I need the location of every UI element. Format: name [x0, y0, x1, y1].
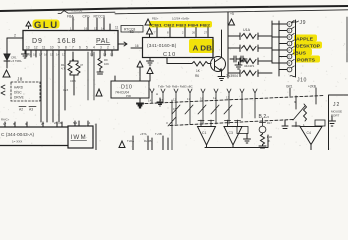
svg-text:14: 14 — [101, 27, 105, 31]
svg-text:CFB: CFB — [70, 79, 76, 83]
svg-text:+2KB: +2KB — [308, 85, 316, 89]
svg-text:2: 2 — [107, 46, 109, 50]
svg-text:14: 14 — [103, 53, 107, 57]
svg-text:C4: C4 — [307, 131, 311, 135]
svg-text:PAL: PAL — [96, 38, 110, 45]
svg-text:5: 5 — [86, 46, 88, 50]
svg-text:CB1 CB2 FB3 FB4 FB2: CB1 CB2 FB3 FB4 FB2 — [151, 23, 210, 27]
svg-text:A2: A2 — [19, 108, 23, 112]
svg-text:14: 14 — [87, 121, 91, 125]
svg-text:DISC: DISC — [14, 91, 22, 95]
svg-text:J2: J2 — [333, 102, 340, 108]
svg-text:15: 15 — [94, 27, 98, 31]
svg-text:APPLE: APPLE — [296, 37, 313, 42]
svg-text:14: 14 — [56, 53, 60, 57]
svg-text:4: 4 — [93, 46, 95, 50]
svg-text:DESKTOP: DESKTOP — [296, 44, 320, 49]
svg-text:HARD: HARD — [14, 86, 24, 90]
svg-text:RA/C+: RA/C+ — [1, 118, 10, 122]
svg-text:12: 12 — [213, 96, 217, 100]
svg-text:15: 15 — [160, 98, 164, 102]
svg-text:15: 15 — [173, 107, 177, 111]
svg-text:16L8: 16L8 — [57, 38, 77, 45]
svg-text:C3: C3 — [229, 131, 233, 135]
svg-text:FBA: FBA — [67, 15, 74, 19]
svg-text:10K: 10K — [104, 62, 109, 66]
svg-text:9: 9 — [58, 46, 60, 50]
svg-text:IWM: IWM — [71, 134, 87, 141]
svg-text:16: 16 — [135, 44, 139, 48]
svg-text:27: 27 — [204, 31, 207, 35]
svg-text:C10: C10 — [163, 52, 176, 58]
svg-text:19: 19 — [27, 53, 31, 57]
svg-text:+5 TRKL: +5 TRKL — [11, 59, 23, 63]
svg-text:17: 17 — [3, 122, 7, 126]
svg-text:TxB+ TxB- RxB+ RxB3 xBC: TxB+ TxB- RxB+ RxB3 xBC — [158, 85, 193, 89]
svg-text:TxDA: TxDA — [127, 139, 134, 143]
svg-text:2: 2 — [14, 34, 16, 38]
svg-text:16: 16 — [44, 53, 48, 57]
svg-text:BUS: BUS — [295, 51, 306, 56]
svg-text:17: 17 — [39, 53, 43, 57]
svg-text:15: 15 — [50, 53, 54, 57]
svg-text:2N3904: 2N3904 — [226, 74, 238, 78]
svg-text:12: 12 — [110, 53, 114, 57]
svg-text:FB2+: FB2+ — [152, 17, 159, 21]
svg-text:12: 12 — [173, 98, 177, 102]
svg-text:A3: A3 — [29, 108, 33, 112]
svg-text:PORT: PORT — [331, 114, 339, 118]
svg-text:26,18: 26,18 — [54, 121, 62, 125]
svg-text:RTCCS: RTCCS — [94, 15, 106, 19]
svg-text:12: 12 — [34, 46, 38, 50]
svg-text:J8: J8 — [17, 77, 23, 82]
svg-text:RxDB: RxDB — [144, 139, 151, 143]
svg-text:4.7: 4.7 — [61, 67, 65, 71]
svg-text:+5: +5 — [230, 12, 234, 16]
svg-text:11: 11 — [115, 26, 119, 30]
svg-text:26: 26 — [192, 31, 195, 35]
svg-text:P06: P06 — [126, 94, 131, 98]
svg-text:1/2/3/4 +5v/B+: 1/2/3/4 +5v/B+ — [172, 17, 190, 21]
svg-text:PORTS: PORTS — [297, 58, 315, 63]
svg-text:18: 18 — [33, 53, 37, 57]
svg-text:Δ: Δ — [156, 92, 158, 96]
svg-text:27: 27 — [41, 122, 45, 126]
svg-text:13: 13 — [62, 53, 66, 57]
svg-text:13: 13 — [26, 46, 30, 50]
svg-text:3: 3 — [100, 46, 102, 50]
svg-text:15: 15 — [90, 53, 94, 57]
svg-text:C (344-0043-A): C (344-0043-A) — [1, 132, 34, 138]
svg-text:1: 1 — [113, 46, 115, 50]
svg-text:D9: D9 — [32, 38, 43, 45]
svg-text:T+5B: T+5B — [155, 132, 162, 136]
svg-text:R6: R6 — [195, 74, 199, 78]
svg-text:16: 16 — [200, 97, 204, 101]
svg-text:7: 7 — [72, 46, 74, 50]
svg-text:J10: J10 — [297, 78, 307, 84]
svg-text:R17: R17 — [267, 121, 272, 125]
svg-text:1= XXX: 1= XXX — [12, 140, 22, 144]
svg-text:GLU: GLU — [34, 20, 59, 31]
svg-text:8: 8 — [65, 46, 67, 50]
svg-text:+5?A: +5?A — [140, 132, 147, 136]
svg-text:17: 17 — [187, 97, 191, 101]
svg-text:47: 47 — [80, 63, 84, 67]
svg-text:V.Ch.08: V.Ch.08 — [71, 9, 82, 13]
svg-text:P1R: P1R — [267, 135, 272, 139]
svg-text:J9: J9 — [300, 20, 306, 26]
svg-text:GP1: GP1 — [286, 85, 293, 89]
svg-text:16: 16 — [84, 27, 88, 31]
svg-text:+5B: +5B — [128, 30, 134, 34]
svg-text:6: 6 — [79, 46, 81, 50]
svg-text:(341-0160-B): (341-0160-B) — [147, 43, 177, 48]
svg-text:3424P1: 3424P1 — [244, 64, 255, 68]
svg-text:C+5: C+5 — [63, 88, 69, 92]
svg-text:13: 13 — [226, 96, 230, 100]
svg-text:DRIVE: DRIVE — [14, 96, 24, 100]
svg-text:14: 14 — [148, 99, 152, 103]
svg-text:1K: 1K — [267, 139, 270, 143]
svg-text:10: 10 — [50, 46, 54, 50]
svg-text:11: 11 — [42, 46, 46, 50]
